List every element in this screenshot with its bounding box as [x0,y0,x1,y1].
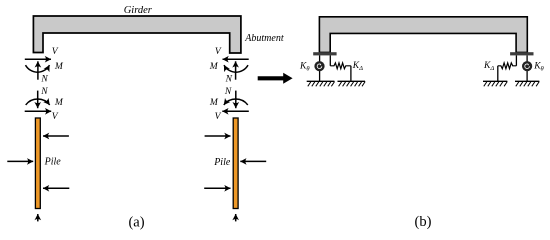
left ground under post [307,81,335,86]
left footing plate (b) [313,52,336,55]
right cut set 1: axial N arrow (up) [235,61,237,79]
left pile load arrow (middle, rightward) [7,160,33,162]
left inner stub line (b) [329,55,331,65]
rotational spring K_theta (right) [522,61,532,71]
svg-text:N: N [40,75,48,85]
rotational spring K_theta (left) [314,61,324,71]
svg-text:KΔ: KΔ [483,61,494,72]
right pile load arrow (middle, leftward) [240,160,266,162]
left pile [35,118,40,209]
svg-text:M: M [54,62,64,72]
svg-text:V: V [52,47,59,57]
left pile load arrow (upper, leftward) [43,135,69,137]
svg-text:Kθ: Kθ [533,62,544,73]
right pile tip reaction arrow (up) [235,214,237,221]
left support post line (b) [319,55,321,81]
svg-text:M: M [209,62,219,72]
svg-text:M: M [209,98,219,108]
translational spring K_delta (left) [330,63,351,69]
svg-text:V: V [215,112,222,122]
right ground under spring anchor [483,81,507,86]
right footing plate (b) [510,52,533,55]
right ground under post [515,81,539,86]
left cut set 1: shear V arrow [25,58,51,60]
svg-text:Abutment: Abutment [244,33,284,44]
girder frame (b) [319,17,527,53]
svg-text:Pile: Pile [44,157,62,168]
svg-text:N: N [225,75,233,85]
svg-text:N: N [224,87,232,97]
left pile head set 2: shear V arrow [25,110,52,112]
right cut set 1: moment arc M [224,65,248,72]
translational spring K_delta (right) [498,63,517,69]
left pile head set 2: axial N arrow (down) [37,91,39,109]
right pile [233,118,238,209]
right pile load arrow (lower, rightward) [204,187,230,189]
right cut set 1: shear V arrow [223,58,249,60]
svg-text:KΔ: KΔ [352,61,363,72]
left pile tip reaction arrow (up) [37,214,39,221]
svg-text:Pile: Pile [213,157,231,168]
svg-text:M: M [54,98,64,108]
left cut set 1: moment arc M [26,65,50,72]
right spring anchor line [497,66,499,82]
svg-text:V: V [52,112,59,122]
transform arrow [258,73,293,84]
svg-text:Kθ: Kθ [299,62,310,73]
right pile head set 2: moment arc M [224,99,248,105]
left spring anchor line [350,66,352,82]
svg-text:(a): (a) [128,215,144,231]
left cut set 1: axial N arrow (up) [37,61,39,79]
svg-text:Girder: Girder [124,5,153,16]
right support post line (b) [526,55,528,81]
girder frame (a) [33,16,241,53]
right pile load arrow (upper, rightward) [205,135,231,137]
left ground under spring anchor [338,81,366,86]
right pile head set 2: axial N arrow (down) [235,91,237,109]
svg-text:N: N [40,87,48,97]
svg-text:V: V [215,47,222,57]
left pile load arrow (lower, leftward) [43,187,69,189]
right inner stub line (b) [515,55,517,65]
svg-text:(b): (b) [415,214,432,230]
left pile head set 2: moment arc M [26,99,50,105]
right pile head set 2: shear V arrow [222,110,249,112]
